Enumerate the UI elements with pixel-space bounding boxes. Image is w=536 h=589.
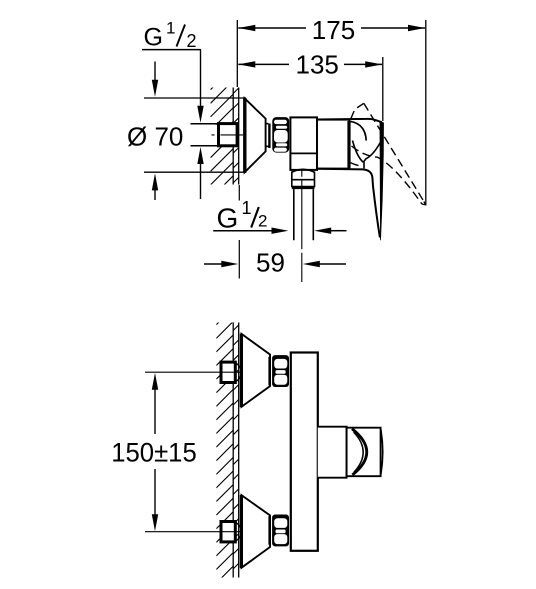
pipe centerline (top view): [212, 134, 244, 136]
wall finish ticks (front view): [233, 325, 239, 569]
svg-text:150±15: 150±15: [111, 438, 197, 468]
valve body inlet block (top view): [290, 117, 317, 169]
extension line right of 135: [382, 57, 384, 121]
svg-text:2: 2: [187, 31, 197, 51]
handle cap (front view): [347, 428, 383, 477]
svg-text:1: 1: [242, 198, 252, 218]
shower outlet dome (top view): [292, 169, 315, 172]
lower ball joint arc (front view): [231, 521, 241, 542]
lever handle solid (top view): [317, 119, 384, 240]
lower escutcheon cone (front view): [242, 495, 271, 568]
extension line right of 175: [425, 20, 427, 206]
handle skirt arc (top view): [363, 143, 380, 169]
upper ball joint arc (front view): [231, 362, 241, 383]
outlet centerline (top view): [301, 171, 303, 282]
upper escutcheon cone (front view): [242, 334, 271, 407]
valve body (top view): [317, 120, 349, 169]
lower union nipple (front view): [221, 522, 235, 542]
svg-text:G: G: [144, 24, 163, 52]
svg-text:135: 135: [296, 50, 339, 80]
cartridge dome (top view): [350, 121, 366, 140]
label G 1/2 (top): [142, 19, 204, 200]
lever handle rotated dashed (top view): [351, 103, 425, 204]
lower supply centerline (front view): [145, 531, 242, 533]
upper union nipple (front view): [221, 362, 235, 382]
wall hatching (front view): [216, 281, 233, 589]
shower outlet pipe (top view): [294, 189, 314, 240]
extension line left x=237.3 (top view): [236, 20, 238, 87]
lower union nut stub face (front view): [268, 516, 271, 545]
dimension 59: [204, 185, 346, 279]
svg-text:59: 59: [256, 247, 285, 277]
dimension 150±15: [111, 373, 197, 531]
lever front edge (top view): [353, 141, 364, 163]
svg-text:175: 175: [312, 15, 355, 45]
svg-text:2: 2: [258, 212, 267, 231]
escutcheon back plate (top view): [243, 98, 246, 173]
upper escutcheon back plate (front view): [240, 334, 243, 407]
svg-text:Ø 70: Ø 70: [127, 122, 183, 152]
supply pipe (top view): [191, 124, 219, 146]
lower escutcheon back plate (front view): [240, 495, 243, 568]
upper supply centerline (front view): [145, 371, 242, 373]
connection stub (top view): [266, 124, 269, 147]
dimension 135: [238, 50, 382, 80]
wall face lines (front view): [233, 323, 239, 578]
union nut stub face (top view): [268, 124, 270, 149]
svg-text:1: 1: [166, 19, 175, 38]
label G 1/2 (outlet): [213, 198, 346, 234]
lower union nut (front view): [272, 515, 289, 547]
union nut (top view): [272, 117, 289, 153]
mounting body plate (front view): [291, 353, 318, 551]
upper union nut stub face (front view): [268, 357, 271, 386]
shower outlet collar (top view): [292, 172, 315, 188]
wall face lines (top view): [233, 88, 239, 185]
cartridge neck (front view): [318, 427, 347, 478]
wall hatching (top view): [211, 40, 234, 226]
dimension Ø70: [127, 62, 246, 201]
dimension 175: [238, 15, 425, 45]
svg-text:G: G: [217, 203, 239, 234]
wall finish ticks (top view): [233, 88, 239, 183]
upper union nut (front view): [272, 355, 289, 387]
union nipple (top view): [219, 124, 238, 146]
escutcheon cone (top view): [245, 98, 266, 172]
